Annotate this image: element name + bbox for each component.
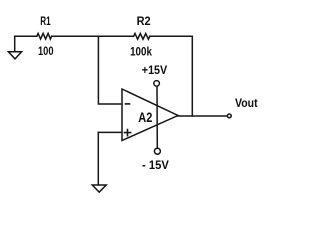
op-amp A2 — [122, 89, 178, 141]
svg-text:Vout: Vout — [235, 96, 258, 110]
svg-text:R1: R1 — [40, 14, 51, 28]
ground G2 — [92, 185, 106, 192]
terminal -15V — [154, 148, 160, 154]
resistor R2 — [134, 34, 150, 40]
pin marker minus — [126, 103, 130, 105]
terminal +15V — [154, 81, 160, 87]
wire R2 to feedback corner — [150, 35, 193, 37]
svg-text:100: 100 — [38, 44, 54, 58]
wire output — [178, 115, 227, 117]
wire node down to inverting input — [98, 36, 121, 104]
wire feedback vertical — [191, 36, 193, 116]
pin marker plus — [125, 130, 131, 136]
ground G1 — [8, 52, 21, 59]
supply wire through op-amp — [156, 86, 158, 148]
wire to non-inverting input — [98, 131, 122, 133]
svg-text:100k: 100k — [130, 44, 152, 58]
terminal Vout — [227, 114, 231, 118]
svg-text:A2: A2 — [138, 109, 152, 125]
svg-text:+15V: +15V — [142, 63, 167, 77]
wire non-inverting to ground G2 — [97, 132, 99, 184]
svg-text:- 15V: - 15V — [142, 158, 169, 172]
wire R1 to R2 through inverting node — [52, 35, 134, 37]
resistor R1 — [37, 33, 52, 39]
wire ground-G1 to R1 — [15, 35, 37, 37]
svg-text:R2: R2 — [137, 14, 151, 28]
wire G1 stub — [14, 36, 16, 51]
